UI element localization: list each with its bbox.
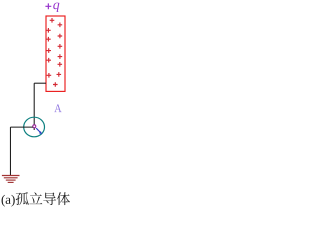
charge +1 — [50, 18, 55, 23]
charge +13 — [53, 82, 58, 87]
charge +5 — [46, 37, 51, 42]
wire down to earth (vertical) — [9, 127, 11, 175]
wire down into galvanometer (vertical) — [33, 83, 35, 130]
charge +11 — [47, 73, 52, 78]
label A (conductor name) — [54, 104, 61, 112]
charge +10 — [58, 62, 63, 67]
conductor plate A (rectangle) — [46, 16, 65, 91]
charge +2 — [58, 23, 63, 28]
charge +8 — [58, 54, 63, 59]
galvanometer needle (blue arrow) — [36, 128, 42, 134]
ground (earth symbol) — [2, 176, 20, 183]
charge +6 — [58, 44, 63, 49]
galvanometer G (circle) — [24, 117, 45, 137]
charge +7 — [46, 48, 51, 53]
pivot (purple ring) — [33, 125, 36, 128]
charge +4 — [58, 34, 63, 39]
charge +9 — [46, 58, 51, 63]
charge +12 — [57, 72, 62, 77]
wire conductor to galvanometer (horizontal) — [34, 82, 46, 84]
wire galvanometer to ground lead (horizontal) — [10, 126, 33, 128]
label +q (charge on conductor) — [45, 3, 59, 12]
caption (a)孤立导体 — [2, 192, 70, 206]
charge +3 — [46, 28, 51, 33]
